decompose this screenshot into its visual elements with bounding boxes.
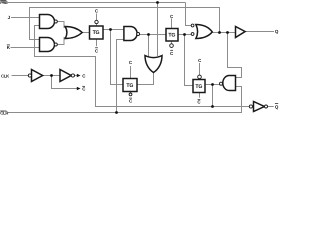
svg-text:TG: TG: [195, 84, 202, 90]
svg-text:Q: Q: [275, 105, 279, 110]
svg-text:K: K: [7, 45, 11, 50]
svg-text:C: C: [129, 99, 133, 104]
svg-text:C: C: [82, 87, 86, 92]
svg-text:C: C: [95, 48, 99, 53]
svg-text:Q: Q: [275, 29, 279, 34]
svg-text:C: C: [170, 51, 174, 56]
svg-text:C: C: [129, 60, 133, 65]
svg-text:C: C: [95, 9, 99, 14]
svg-text:C: C: [197, 99, 201, 104]
svg-text:TG: TG: [168, 33, 175, 39]
svg-text:TG: TG: [126, 83, 133, 89]
svg-text:C: C: [170, 14, 174, 19]
svg-text:C: C: [198, 58, 202, 63]
svg-text:J: J: [8, 15, 11, 20]
svg-text:TG: TG: [93, 30, 100, 36]
svg-text:C: C: [82, 73, 86, 78]
svg-text:CLK: CLK: [1, 74, 9, 79]
